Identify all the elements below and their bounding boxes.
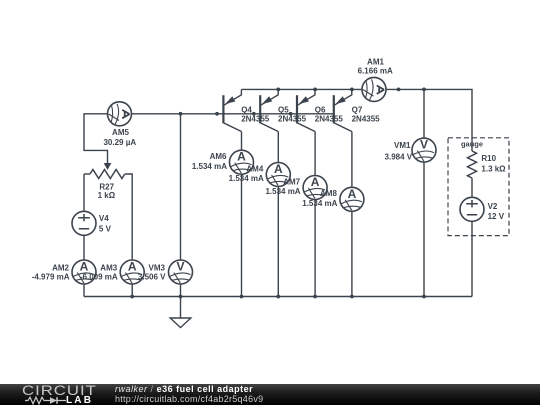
svg-text:5 V: 5 V <box>99 225 112 234</box>
svg-text:AM5: AM5 <box>112 128 129 137</box>
CircuitLab logo CIRCUIT <box>22 383 97 398</box>
ammeter AM7 <box>303 175 327 200</box>
transistor Q7 <box>334 89 352 131</box>
wire Q5 collector down <box>277 132 279 297</box>
voltage source V4 <box>72 211 96 235</box>
wire R27 right lead down to AM3 <box>125 174 132 297</box>
svg-text:AM3: AM3 <box>100 263 117 272</box>
title line <box>115 384 253 394</box>
svg-text:AM2: AM2 <box>52 263 69 272</box>
node dots top rail <box>276 88 426 92</box>
svg-text:-6.009 mA: -6.009 mA <box>80 273 118 282</box>
wire bottom ground rail <box>84 296 472 298</box>
CircuitLab logo squiggle <box>25 396 67 405</box>
wire left column R27-V4-AM2 <box>83 174 85 260</box>
svg-text:Q6: Q6 <box>315 106 326 115</box>
ammeter AM8 <box>340 187 364 212</box>
voltage source V2 <box>460 197 484 221</box>
wire AM2 to rail <box>83 284 85 297</box>
resistor R27 <box>90 170 125 179</box>
svg-text:12 V: 12 V <box>488 212 505 221</box>
wire AM1 to gauge branch <box>386 89 472 151</box>
svg-text:6.166 mA: 6.166 mA <box>358 67 393 76</box>
ammeter AM2 <box>72 260 96 285</box>
wire R27 left lead <box>84 173 90 175</box>
svg-text:1.534 mA: 1.534 mA <box>302 199 337 208</box>
wire top emitter rail <box>242 88 363 90</box>
dashed gauge box <box>448 138 509 236</box>
svg-text:30.29 µA: 30.29 µA <box>103 138 136 147</box>
svg-text:AM7: AM7 <box>283 177 300 186</box>
svg-text:VM3: VM3 <box>149 263 166 272</box>
node dots bottom rail <box>130 295 426 299</box>
transistor Q5 <box>260 89 278 131</box>
svg-text:V4: V4 <box>99 214 109 223</box>
url line <box>115 394 263 404</box>
R27 wiper arrow <box>104 163 112 170</box>
svg-text:1.534 mA: 1.534 mA <box>265 187 300 196</box>
svg-text:AM8: AM8 <box>320 189 337 198</box>
svg-text:Q4: Q4 <box>241 106 252 115</box>
wire R10 to V2 to bottom rail <box>471 178 473 297</box>
wire VM3 branch upper <box>180 114 182 297</box>
svg-text:1.534 mA: 1.534 mA <box>192 162 227 171</box>
ammeter AM1 <box>362 77 386 101</box>
svg-text:2N4355: 2N4355 <box>352 115 381 124</box>
svg-text:1 kΩ: 1 kΩ <box>98 191 116 200</box>
wire AM5 left to R27 wiper <box>84 114 108 164</box>
svg-text:2N4355: 2N4355 <box>241 115 270 124</box>
ground <box>170 297 191 328</box>
svg-text:V2: V2 <box>488 202 498 211</box>
svg-text:2N4355: 2N4355 <box>315 115 344 124</box>
CircuitLab logo LAB <box>66 395 93 406</box>
wire Q4 collector down <box>241 132 243 297</box>
svg-text:3.984 V: 3.984 V <box>385 152 413 161</box>
svg-text:-4.979 mA: -4.979 mA <box>32 273 70 282</box>
svg-text:AM6: AM6 <box>210 152 227 161</box>
wire base rail AM5 to Q7 <box>132 113 335 115</box>
wire VM1 branch <box>423 89 425 296</box>
svg-text:Q5: Q5 <box>278 106 289 115</box>
wire Q6 collector down <box>314 132 316 297</box>
ammeter AM3 <box>120 260 144 285</box>
wire Q7 collector down <box>351 132 353 297</box>
ammeter AM6 <box>230 150 254 175</box>
svg-text:VM1: VM1 <box>394 141 411 150</box>
transistor Q4 <box>223 89 241 131</box>
svg-text:3.506 V: 3.506 V <box>138 273 166 282</box>
transistor Q6 <box>297 89 315 131</box>
ammeter AM5 <box>108 102 132 126</box>
voltmeter VM1 <box>412 138 436 163</box>
resistor R10 <box>468 151 477 178</box>
svg-text:1.534 mA: 1.534 mA <box>229 174 264 183</box>
voltmeter VM3 <box>169 260 193 285</box>
ammeter AM4 <box>266 162 290 187</box>
svg-text:gauge: gauge <box>461 140 483 149</box>
svg-text:AM4: AM4 <box>246 164 263 173</box>
svg-text:1.3 kΩ: 1.3 kΩ <box>481 165 506 174</box>
svg-text:2N4355: 2N4355 <box>278 115 307 124</box>
svg-text:Q7: Q7 <box>352 106 363 115</box>
node dots base rail <box>179 112 293 116</box>
svg-text:R10: R10 <box>481 154 496 163</box>
svg-text:AM1: AM1 <box>367 58 384 67</box>
